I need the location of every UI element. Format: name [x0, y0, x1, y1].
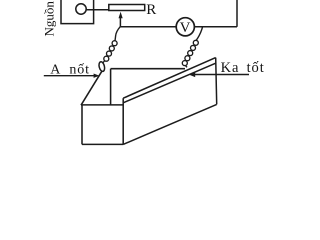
svg-text:Ka tốt: Ka tốt [221, 60, 265, 76]
svg-text:Nguồn: Nguồn [42, 1, 57, 37]
svg-text:V: V [180, 20, 191, 36]
svg-text:A nốt: A nốt [50, 63, 90, 78]
svg-text:R: R [146, 2, 156, 18]
